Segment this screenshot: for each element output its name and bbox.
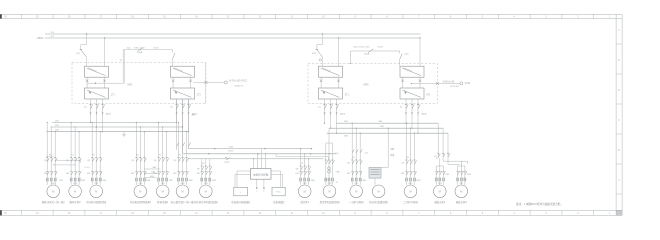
svg-text:3×50+1×25: 3×50+1×25: [443, 80, 455, 83]
svg-text:给水泵(变频控制): 给水泵(变频控制): [369, 200, 388, 204]
svg-text:检修电源1: 检修电源1: [157, 200, 169, 204]
svg-text:仪表(配套): 仪表(配套): [273, 200, 285, 204]
svg-text:VV22: VV22: [465, 83, 471, 85]
upper breaker row for feeder M10: [352, 149, 369, 154]
motor M7: [200, 183, 213, 198]
svg-text:1T1: 1T1: [111, 95, 116, 97]
svg-text:真空泵2(变频控制): 真空泵2(变频控制): [319, 200, 339, 204]
outgoing cable feeder from NR1 cabinet: [194, 80, 248, 88]
signal wire to east: [276, 154, 328, 160]
interlock branch wires at feeder M4: [144, 166, 160, 178]
LV bus section 5 line C: [327, 133, 448, 137]
svg-text:C: C: [618, 119, 620, 122]
motor feeder drop for M4: [131, 122, 151, 185]
unit 1AH1 stab connectors: [86, 77, 106, 88]
motor feeder drop for M10: [347, 123, 367, 185]
incoming feed 5Q1 from HV bus with isolator: [312, 33, 323, 66]
motor M13: [434, 183, 447, 198]
motor feeder drop for M2: [66, 122, 86, 185]
svg-text:5T1: 5T1: [345, 95, 350, 97]
svg-text:二号炉引风机: 二号炉引风机: [403, 200, 418, 204]
transformer 1T1 lower drawer: [85, 88, 116, 99]
fuse on MCC bus line 3: [224, 151, 234, 164]
motor feeder drop for M14: [456, 161, 471, 185]
PLC control cabinet: [251, 169, 272, 180]
svg-text:循环水泵2: 循环水泵2: [70, 200, 82, 204]
LV bus section 1 line C: [47, 130, 189, 132]
motor M9: [323, 183, 336, 198]
motor M14: [455, 183, 468, 198]
motor M5: [156, 183, 169, 198]
transformer 5T1 lower drawer: [319, 88, 350, 99]
incoming feed 5Q2 from HV bus: [338, 37, 339, 66]
svg-text:中央信号控制: 中央信号控制: [253, 173, 269, 177]
interlock wires between M1 and M2 feeders: [46, 155, 90, 169]
riser from transformer 1T2 outputs to MCC bus: [177, 99, 197, 154]
svg-text:循环水泵1(一用一备): 循环水泵1(一用一备): [42, 200, 65, 204]
svg-text:2×1.5: 2×1.5: [84, 166, 90, 169]
MCC bus line 2: [184, 153, 336, 154]
link wire between unit 1AH1 output and tie riser: [87, 50, 124, 84]
svg-text:VV22: VV22: [154, 47, 160, 49]
svg-text:NR1: NR1: [127, 84, 133, 87]
LV output feeders of 5T1 with breakers: [318, 99, 346, 134]
svg-text:SC70 FC: SC70 FC: [450, 86, 459, 88]
unit 6AH1 stab connectors: [401, 77, 421, 88]
svg-text:3×95+1×50: 3×95+1×50: [134, 46, 146, 49]
MCC bus line 1: [188, 146, 312, 149]
notes text: [516, 202, 563, 206]
svg-text:KM: KM: [347, 173, 350, 175]
svg-text:凝结水泵2: 凝结水泵2: [456, 200, 468, 204]
motor M8: [298, 183, 311, 198]
svg-text:2TA: 2TA: [336, 170, 340, 173]
svg-text:D: D: [618, 89, 620, 92]
wire to pump M14: [461, 161, 468, 166]
LV output feeders of 1T1 with breakers: [84, 99, 112, 132]
svg-text:NR5: NR5: [363, 84, 369, 87]
svg-text:KM: KM: [296, 173, 299, 175]
svg-text:RT18: RT18: [224, 162, 230, 164]
svg-text:VV22: VV22: [378, 46, 384, 48]
local device box left: [234, 187, 248, 196]
svg-text:100A: 100A: [137, 51, 143, 54]
bus section 5 east risers to condensate pump feeders: [434, 123, 468, 164]
svg-text:1Q: 1Q: [120, 60, 123, 62]
svg-text:KM: KM: [87, 173, 90, 175]
metered feeder drop for M9 with CTs: [325, 128, 340, 185]
svg-text:一号炉引风机: 一号炉引风机: [349, 200, 364, 204]
svg-text:1Q: 1Q: [400, 107, 403, 109]
svg-text:3×4+2.5: 3×4+2.5: [46, 155, 54, 158]
svg-text:KM: KM: [173, 173, 176, 175]
svg-text:凝结水泵1: 凝结水泵1: [434, 200, 446, 204]
svg-text:空压机冷干机组(变频): 空压机冷干机组(变频): [194, 200, 218, 204]
svg-text:真空泵1: 真空泵1: [300, 200, 309, 204]
motor M10: [350, 183, 363, 198]
svg-text:办公楼空调(一用一备): 办公楼空调(一用一备): [171, 200, 195, 204]
motor feeder drop for M5: [154, 122, 174, 185]
motor M2: [69, 183, 82, 198]
svg-text:100A: 100A: [364, 53, 370, 56]
svg-text:~220V: ~220V: [227, 151, 234, 153]
control cabinet supply taps from MCC bus: [253, 149, 266, 169]
svg-text:1Q: 1Q: [170, 107, 173, 109]
drawout breaker unit 1AH1 upper drawer: [85, 66, 109, 77]
LV bus section 1 line B: [52, 125, 182, 127]
MCC bus line 3: [188, 158, 323, 160]
soft starter unit for M11: [369, 128, 394, 185]
drawout breaker unit 1AH2 upper drawer: [171, 66, 195, 77]
motor M4: [134, 183, 147, 198]
transformer 6T1 lower drawer: [400, 88, 431, 99]
motor M1: [47, 183, 60, 198]
incoming feed 1Q1 from HV bus with isolator: [76, 33, 87, 66]
svg-text:1Q: 1Q: [318, 107, 321, 109]
svg-text:~380V: ~380V: [36, 36, 44, 40]
HV bus line L2: [45, 37, 421, 39]
bus tie QL1 between transformer units: [120, 46, 176, 82]
svg-text:6T1: 6T1: [426, 95, 431, 97]
control cabinet output signals: [256, 179, 266, 192]
motor feeder drop for M1: [44, 122, 64, 185]
motor M3: [90, 183, 103, 198]
svg-text:电动调节阀(配套): 电动调节阀(配套): [231, 200, 250, 204]
motor feeder drop for M6: [173, 122, 193, 185]
svg-text:KM: KM: [401, 173, 404, 175]
svg-text:1Q: 1Q: [84, 107, 87, 109]
svg-text:KM: KM: [44, 173, 47, 175]
motor feeder drop for M8: [296, 148, 316, 185]
svg-text:A606: A606: [422, 112, 428, 115]
motor M12: [404, 183, 417, 198]
svg-text:A601: A601: [106, 112, 112, 115]
LV bus section 5 line A: [336, 121, 438, 123]
bus tie QL5 between transformer units: [319, 45, 409, 66]
motor feeder drop for M13: [435, 161, 450, 185]
incoming feed 6Q2 from HV bus: [419, 37, 420, 66]
svg-text:备注：1.本图MCC柜均为抽屉式组合柜。: 备注：1.本图MCC柜均为抽屉式组合柜。: [516, 202, 563, 206]
border frame top ruler band: [0, 14, 622, 18]
drawout breaker unit 6AH1 upper drawer: [400, 66, 424, 77]
LV bus section 1 line A: [52, 120, 176, 122]
svg-text:KM: KM: [131, 173, 134, 175]
wires to local device box right: [271, 171, 283, 187]
svg-text:KM: KM: [66, 173, 69, 175]
MCC cabinet enclosure NR1 (dashed): [72, 63, 206, 104]
drawout breaker unit 5AH1 upper drawer: [319, 66, 343, 77]
unit 5AH1 stab connectors: [320, 77, 340, 88]
svg-text:SC80 FC: SC80 FC: [235, 85, 244, 87]
unit 1AH2 stab connectors: [172, 77, 192, 88]
HV bus line L1: [45, 33, 421, 35]
motor feeder drop for M7: [197, 159, 217, 185]
motor feeder drop for M3: [87, 122, 107, 185]
svg-text:5QL 3×95+1×50: 5QL 3×95+1×50: [354, 45, 371, 48]
transformer 1T2 lower drawer: [171, 88, 202, 99]
svg-text:空压机1(变频控制): 空压机1(变频控制): [86, 200, 106, 204]
LV bus section 5 line B: [329, 126, 443, 128]
svg-text:KM: KM: [197, 173, 200, 175]
motor M11: [372, 185, 385, 198]
wires to local device box left: [235, 171, 251, 187]
LV output feeders of 6T1 with breakers: [400, 99, 428, 134]
local device box right: [272, 187, 285, 196]
motor M6: [176, 183, 189, 198]
incoming feed 1Q2 from HV bus: [104, 37, 105, 66]
LV output feeders of 1T2 with breakers: [170, 99, 198, 132]
svg-text:A605: A605: [340, 112, 346, 115]
border frame bottom ruler band: [0, 210, 622, 215]
border frame right ruler band: [616, 14, 622, 215]
motor feeder drop for M12: [401, 123, 421, 185]
outgoing cable feeder from NR5 cabinet: [411, 80, 471, 88]
ground symbol on LV bus: [122, 132, 126, 137]
svg-text:PLC: PLC: [276, 192, 281, 194]
MCC cabinet enclosure NR5 (dashed): [308, 64, 437, 104]
svg-text:↔: ↔: [239, 191, 241, 194]
svg-text:空压机房照明(备用): 空压机房照明(备用): [130, 200, 151, 204]
svg-text:3×70+1×35 VV22: 3×70+1×35 VV22: [229, 80, 248, 83]
NR1 cabinet side boundary: [205, 63, 207, 104]
svg-text:1T2: 1T2: [197, 95, 202, 97]
